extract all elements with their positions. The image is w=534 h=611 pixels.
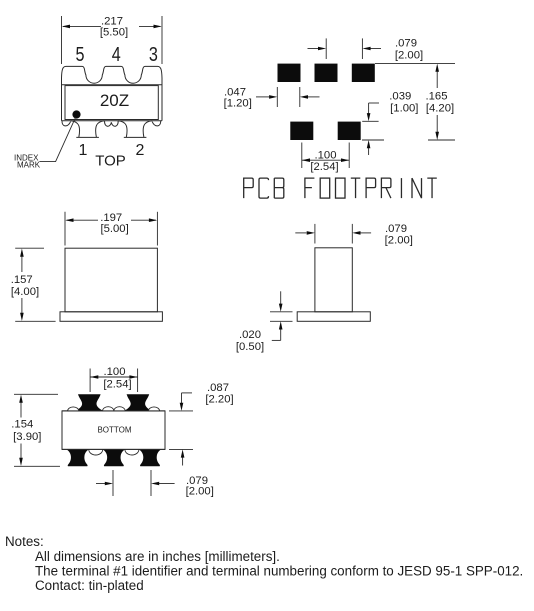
letter T	[427, 178, 437, 198]
bottom terminal 2 outline (top view)	[118, 121, 151, 138]
letter T	[351, 178, 361, 198]
dimension .047 [1.20]	[224, 87, 320, 110]
svg-text:.157: .157	[11, 274, 33, 286]
castellation bites between pads A and B	[103, 407, 114, 411]
dimension .100 [2.54] footprint	[302, 143, 349, 174]
dimension .020 [0.50]	[236, 291, 293, 353]
terminal E (bottom row right, black spool)	[139, 449, 161, 466]
dimension .217 [5.50]	[62, 16, 163, 65]
top view body top line	[62, 84, 163, 86]
svg-text:[2.54]: [2.54]	[310, 161, 338, 173]
bottom view body bottom line redraw	[62, 448, 165, 450]
svg-text:.087: .087	[207, 382, 229, 394]
dimension .157 [4.00]	[11, 248, 56, 321]
svg-text:.100: .100	[315, 150, 337, 162]
letter N	[412, 178, 422, 198]
svg-text:[2.00]: [2.00]	[186, 486, 214, 498]
svg-text:[1.00]: [1.00]	[390, 103, 418, 115]
top view package outline: top terminal band with castellation cups	[62, 66, 163, 120]
svg-text:.100: .100	[104, 366, 126, 378]
bottom terminal 1 outline (top view)	[71, 121, 104, 138]
svg-text:20Z: 20Z	[100, 91, 129, 110]
index mark dot	[72, 110, 80, 118]
castellation arches bottom row	[89, 449, 103, 455]
pad 4	[290, 122, 313, 140]
bottom view body top line redraw	[62, 410, 165, 412]
dimension .039 [1.00]	[362, 91, 418, 156]
svg-text:[0.50]: [0.50]	[236, 341, 264, 353]
svg-text:.154: .154	[11, 419, 33, 431]
bottom view body	[62, 411, 165, 450]
terminal D (bottom row middle, black spool)	[103, 449, 125, 466]
heart fillet between terminals 1 and 2	[105, 121, 119, 127]
dimension .165 [4.20]	[362, 64, 455, 140]
svg-text:[1.20]: [1.20]	[224, 98, 252, 110]
index mark leader line	[40, 118, 76, 162]
svg-text:5: 5	[76, 44, 85, 66]
dimension .079 [2.00] bottom view	[96, 470, 214, 498]
svg-text:.039: .039	[389, 91, 411, 103]
pad 1	[278, 64, 301, 82]
svg-text:All dimensions are in inches [: All dimensions are in inches [millimeter…	[35, 549, 280, 564]
letter R	[381, 178, 391, 198]
end view body	[315, 248, 352, 312]
svg-text:The terminal #1 identifier and: The terminal #1 identifier and terminal …	[35, 564, 523, 579]
letter F	[305, 178, 315, 198]
pad 5	[338, 122, 361, 140]
terminal pad B (top row right, black)	[124, 394, 152, 411]
svg-text:[4.20]: [4.20]	[426, 103, 454, 115]
letter O (square)	[336, 178, 346, 198]
svg-text:[4.00]: [4.00]	[11, 286, 39, 298]
side view base plate	[60, 312, 162, 322]
castellation bite left of pad A	[68, 407, 79, 411]
top view marking rectangle	[65, 86, 158, 120]
svg-text:[5.00]: [5.00]	[100, 223, 128, 235]
svg-text:1: 1	[79, 142, 88, 159]
left edge fillet lobe	[62, 121, 71, 126]
castellation bite right of pad B	[148, 407, 159, 411]
svg-text:[2.00]: [2.00]	[385, 235, 413, 247]
svg-text:[2.20]: [2.20]	[205, 394, 233, 406]
svg-text:[5.50]: [5.50]	[100, 27, 128, 39]
svg-text:TOP: TOP	[95, 152, 126, 169]
svg-text:[3.90]: [3.90]	[13, 431, 41, 443]
svg-text:3: 3	[149, 44, 158, 66]
dimension .079 [2.00] end view	[295, 223, 413, 247]
letter I	[400, 178, 402, 198]
letter O (square)	[320, 178, 330, 198]
terminal C (bottom row left, black spool)	[67, 449, 89, 466]
pad 3	[352, 64, 375, 82]
letter B	[274, 178, 284, 198]
svg-text:Notes:: Notes:	[5, 534, 44, 549]
top view body bottom line	[62, 120, 163, 122]
svg-text:BOTTOM: BOTTOM	[97, 426, 131, 435]
dimension .197 [5.00]	[65, 212, 157, 246]
end view base plate	[297, 312, 370, 322]
terminal pad A (top row left, black)	[75, 394, 103, 411]
pad 2	[315, 64, 338, 82]
side view body	[65, 248, 157, 312]
svg-text:.079: .079	[385, 223, 407, 235]
svg-text:.020: .020	[239, 329, 261, 341]
letter P	[366, 178, 375, 198]
svg-text:Contact: tin-plated: Contact: tin-plated	[35, 578, 144, 593]
svg-text:MARK: MARK	[17, 161, 41, 170]
PCB FOOTPRINT title (CAD style letters)	[244, 178, 437, 198]
svg-text:4: 4	[112, 44, 121, 66]
dimension .154 [3.90]	[11, 394, 60, 466]
dimension .087 [2.20]	[169, 382, 234, 466]
svg-text:[2.54]: [2.54]	[103, 378, 131, 390]
dimension .079 [2.00] footprint top	[308, 38, 424, 62]
svg-text:.165: .165	[426, 91, 448, 103]
letter C	[259, 178, 269, 198]
svg-text:.079: .079	[395, 38, 417, 50]
letter P	[244, 178, 254, 198]
svg-text:[2.00]: [2.00]	[395, 50, 423, 62]
right edge fillet lobe	[152, 121, 161, 126]
dimension .100 [2.54] bottom view	[90, 366, 138, 392]
svg-text:2: 2	[136, 142, 145, 159]
